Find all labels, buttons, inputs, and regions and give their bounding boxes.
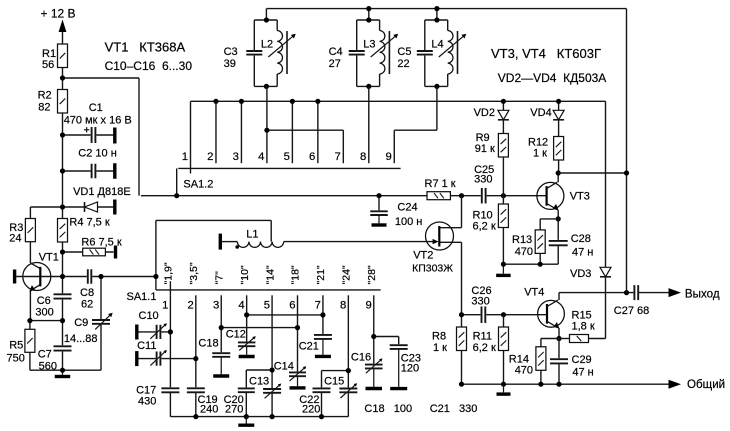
- svg-text:R8: R8: [432, 331, 446, 343]
- svg-text:C1: C1: [89, 102, 103, 114]
- svg-text:VD3: VD3: [570, 268, 591, 280]
- svg-text:C15: C15: [324, 376, 344, 388]
- svg-text:1: 1: [182, 151, 188, 163]
- svg-text:"21": "21": [315, 265, 327, 284]
- svg-text:9: 9: [365, 299, 371, 311]
- svg-text:470: 470: [515, 246, 533, 258]
- svg-text:5: 5: [284, 151, 290, 163]
- svg-text:430: 430: [138, 396, 156, 408]
- svg-text:27: 27: [329, 58, 341, 70]
- svg-text:C18: C18: [198, 338, 218, 350]
- svg-text:91 к: 91 к: [475, 143, 495, 155]
- svg-text:R6 7,5 к: R6 7,5 к: [81, 237, 121, 249]
- svg-text:C9: C9: [74, 317, 88, 329]
- svg-text:"18": "18": [290, 265, 302, 284]
- svg-text:6: 6: [289, 299, 295, 311]
- svg-text:560: 560: [39, 361, 57, 373]
- svg-text:Общий: Общий: [687, 378, 725, 391]
- svg-text:VT2: VT2: [413, 250, 433, 262]
- svg-text:C16: C16: [351, 352, 371, 364]
- svg-text:39: 39: [224, 58, 236, 70]
- svg-text:R7 1 к: R7 1 к: [425, 178, 456, 190]
- svg-text:C4: C4: [329, 46, 343, 58]
- svg-text:"7": "7": [213, 271, 225, 285]
- svg-text:L3: L3: [363, 38, 375, 50]
- svg-text:5: 5: [264, 299, 270, 311]
- svg-text:240: 240: [200, 404, 218, 416]
- svg-text:82: 82: [38, 102, 50, 114]
- svg-text:6: 6: [309, 151, 315, 163]
- svg-text:9: 9: [385, 151, 391, 163]
- svg-text:C2 10 н: C2 10 н: [78, 148, 116, 160]
- svg-text:C7: C7: [38, 349, 52, 361]
- svg-text:C5: C5: [397, 46, 411, 58]
- svg-text:24: 24: [9, 233, 21, 245]
- svg-text:7: 7: [335, 151, 341, 163]
- svg-text:"10": "10": [239, 265, 251, 284]
- svg-text:22: 22: [397, 58, 409, 70]
- svg-text:VT3: VT3: [570, 191, 590, 203]
- svg-text:"3,5": "3,5": [188, 262, 200, 284]
- svg-text:2: 2: [207, 151, 213, 163]
- svg-text:8: 8: [340, 299, 346, 311]
- svg-text:270: 270: [225, 404, 243, 416]
- svg-text:47 н: 47 н: [572, 247, 593, 259]
- svg-text:1 к: 1 к: [533, 148, 547, 160]
- svg-text:L1: L1: [246, 229, 258, 241]
- svg-text:С10–С16 6...30: С10–С16 6...30: [105, 59, 193, 73]
- svg-text:2: 2: [188, 299, 194, 311]
- svg-text:7: 7: [315, 299, 321, 311]
- svg-text:4: 4: [258, 151, 264, 163]
- svg-text:C14: C14: [274, 361, 294, 373]
- svg-text:C27 68: C27 68: [614, 305, 649, 317]
- svg-text:C6: C6: [37, 295, 51, 307]
- svg-text:C8: C8: [80, 287, 94, 299]
- svg-text:330: 330: [471, 296, 489, 308]
- svg-text:SA1.2: SA1.2: [183, 179, 213, 191]
- svg-text:R5: R5: [9, 340, 23, 352]
- svg-text:470: 470: [515, 365, 533, 377]
- svg-text:56: 56: [42, 59, 54, 71]
- svg-text:C28: C28: [571, 233, 591, 245]
- svg-text:300: 300: [35, 307, 53, 319]
- svg-text:"1,9": "1,9": [163, 262, 175, 284]
- svg-text:100 н: 100 н: [395, 216, 422, 228]
- svg-text:Выход: Выход: [685, 288, 720, 301]
- svg-text:SA1.1: SA1.1: [127, 291, 157, 303]
- svg-text:750: 750: [7, 353, 25, 365]
- svg-text:VD1 Д818Е: VD1 Д818Е: [73, 186, 131, 198]
- svg-text:VD2—VD4 КД503А: VD2—VD4 КД503А: [498, 71, 607, 85]
- svg-text:120: 120: [401, 363, 419, 375]
- svg-text:R11: R11: [473, 331, 492, 343]
- svg-text:6,2 к: 6,2 к: [473, 342, 496, 354]
- svg-text:3: 3: [213, 299, 219, 311]
- svg-text:R4 7,5 к: R4 7,5 к: [69, 217, 109, 229]
- svg-text:"28": "28": [366, 265, 378, 284]
- svg-text:"24": "24": [341, 265, 353, 284]
- svg-text:+ 12 В: + 12 В: [41, 7, 76, 21]
- svg-text:C13: C13: [249, 376, 269, 388]
- svg-text:VT1 КТ368А: VT1 КТ368А: [105, 40, 186, 55]
- svg-text:C29: C29: [572, 354, 592, 366]
- svg-text:C21: C21: [299, 341, 319, 353]
- svg-text:"14": "14": [264, 265, 276, 284]
- svg-text:C24: C24: [397, 202, 417, 214]
- svg-text:VT4: VT4: [524, 287, 544, 299]
- svg-text:1 к: 1 к: [433, 342, 447, 354]
- svg-text:VD4: VD4: [530, 107, 551, 119]
- svg-text:1: 1: [162, 299, 168, 311]
- svg-text:1,8 к: 1,8 к: [572, 321, 595, 333]
- svg-text:330: 330: [474, 174, 492, 186]
- svg-text:14...88: 14...88: [64, 333, 98, 345]
- svg-text:8: 8: [360, 151, 366, 163]
- svg-text:62: 62: [81, 299, 93, 311]
- svg-text:4: 4: [238, 299, 244, 311]
- svg-text:470 мк x 16 В: 470 мк x 16 В: [64, 115, 132, 127]
- svg-text:VT1: VT1: [39, 252, 59, 264]
- svg-text:VT3, VT4 КТ603Г: VT3, VT4 КТ603Г: [491, 46, 601, 61]
- svg-text:220: 220: [302, 404, 320, 416]
- svg-text:VD2: VD2: [474, 107, 495, 119]
- svg-text:L4: L4: [431, 38, 443, 50]
- svg-text:C21 330: C21 330: [430, 403, 478, 415]
- svg-text:C18 100: C18 100: [364, 403, 412, 415]
- svg-text:47 н: 47 н: [572, 367, 593, 379]
- svg-text:6,2 к: 6,2 к: [473, 221, 496, 233]
- svg-text:C3: C3: [224, 46, 238, 58]
- svg-text:L2: L2: [261, 38, 273, 50]
- svg-text:3: 3: [233, 151, 239, 163]
- svg-text:C10: C10: [139, 310, 159, 322]
- svg-text:КП303Ж: КП303Ж: [412, 263, 453, 275]
- svg-text:C11: C11: [137, 340, 156, 352]
- svg-text:C12: C12: [226, 329, 246, 341]
- svg-text:R13: R13: [512, 234, 532, 246]
- svg-text:R2: R2: [38, 90, 52, 102]
